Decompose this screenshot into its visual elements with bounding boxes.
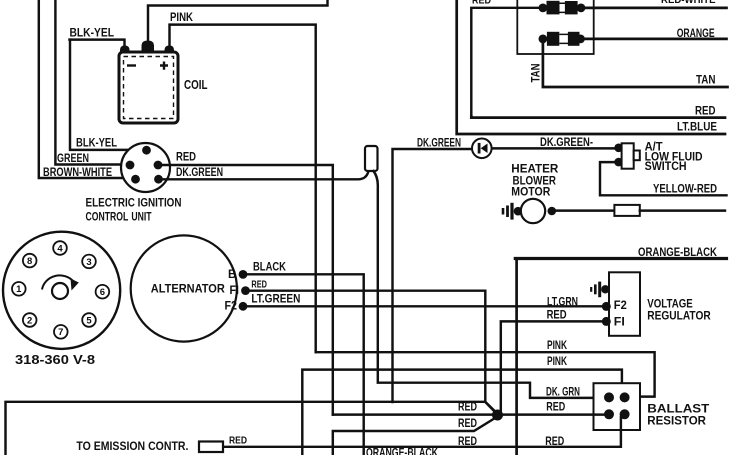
fuse F2 bbox=[539, 32, 585, 46]
wire from fusible link right bbox=[640, 209, 725, 211]
distributor cap circle 318-360 V-8 bbox=[3, 232, 120, 349]
svg-text:1: 1 bbox=[16, 284, 22, 295]
svg-text:SWITCH: SWITCH bbox=[645, 161, 687, 173]
svg-text:LT.BLUE: LT.BLUE bbox=[677, 122, 717, 134]
coil center tower bbox=[142, 41, 155, 54]
coil dashed inner border bbox=[124, 57, 174, 119]
alternator pin dots bbox=[239, 270, 248, 279]
svg-text:COIL: COIL bbox=[184, 77, 208, 92]
svg-text:FI: FI bbox=[230, 285, 240, 297]
svg-text:5: 5 bbox=[86, 315, 92, 326]
wire BROWN-WHITE from top edge to ECU bbox=[39, 0, 134, 178]
svg-text:RED: RED bbox=[176, 152, 196, 164]
svg-text:ELECTRIC IGNITION: ELECTRIC IGNITION bbox=[86, 198, 182, 210]
svg-text:MOTOR: MOTOR bbox=[511, 186, 551, 198]
svg-text:TO EMISSION CONTR.: TO EMISSION CONTR. bbox=[76, 441, 188, 453]
coil left terminal bbox=[120, 46, 130, 54]
svg-text:RED: RED bbox=[546, 402, 565, 414]
wire YELLOW-RED bbox=[600, 162, 727, 195]
fuse block box bbox=[517, 0, 593, 54]
wire PINK from coil + terminal down right side to PINK1 corner bbox=[170, 25, 316, 353]
svg-text:4: 4 bbox=[57, 243, 63, 254]
svg-text:7: 7 bbox=[58, 327, 63, 338]
coil plus mark bbox=[160, 62, 168, 70]
distributor rotation arrow bbox=[42, 275, 74, 289]
svg-text:PINK: PINK bbox=[170, 12, 194, 24]
wire GREEN from top edge to ECU bbox=[55, 0, 129, 165]
fusible link F3 bbox=[614, 205, 639, 216]
ground at heater motor bbox=[503, 203, 512, 220]
wire from motor to fusible link bbox=[554, 209, 614, 211]
svg-text:DK.GREEN: DK.GREEN bbox=[176, 167, 223, 179]
svg-text:RED: RED bbox=[695, 106, 716, 118]
op-amp: electric ignition control unit circle U1 bbox=[121, 143, 170, 192]
svg-text:BLK-YEL: BLK-YEL bbox=[70, 28, 115, 40]
svg-text:F2: F2 bbox=[225, 301, 238, 313]
svg-text:DK.GREEN-: DK.GREEN- bbox=[540, 137, 593, 149]
wire PINK1 from coil-pink vertical to ballast top-right bbox=[316, 352, 655, 396]
svg-text:LT.GRN: LT.GRN bbox=[547, 296, 578, 308]
wire BLK-YEL branch down to ECU top pin bbox=[70, 40, 146, 150]
svg-text:RED: RED bbox=[458, 436, 477, 448]
ballast resistor box bbox=[594, 383, 641, 430]
svg-text:DK. GRN: DK. GRN bbox=[546, 386, 580, 398]
svg-text:TAN: TAN bbox=[696, 75, 716, 87]
ECU pin dots bbox=[142, 146, 151, 155]
svg-text:F2: F2 bbox=[614, 300, 627, 312]
svg-text:8: 8 bbox=[27, 256, 32, 267]
wire LT.BLUE bbox=[457, 0, 725, 134]
connector CN1 (DK.GREEN) bbox=[365, 146, 378, 171]
svg-text:RED: RED bbox=[251, 280, 267, 291]
svg-text:DK.GREEN: DK.GREEN bbox=[417, 137, 461, 149]
wire ORANGE bbox=[585, 38, 727, 41]
svg-text:RED: RED bbox=[229, 435, 247, 446]
coil right terminal bbox=[165, 46, 175, 54]
svg-text:6: 6 bbox=[100, 287, 105, 298]
svg-text:TAN: TAN bbox=[531, 64, 543, 83]
voltage regulator box bbox=[609, 272, 640, 336]
wire RED-WHITE bbox=[584, 7, 727, 10]
svg-text:B: B bbox=[228, 269, 236, 281]
svg-text:BALLAST: BALLAST bbox=[647, 404, 709, 416]
svg-text:RESISTOR: RESISTOR bbox=[647, 416, 706, 428]
svg-text:2: 2 bbox=[27, 315, 32, 326]
wire from connector down to DK.GRN run bbox=[374, 171, 607, 398]
wire BLACK from alternator B down to bottom edge bbox=[243, 274, 364, 455]
svg-text:PINK: PINK bbox=[547, 356, 567, 368]
coil minus mark bbox=[127, 64, 136, 66]
ground at regulator bbox=[591, 282, 600, 298]
wire BLK-YEL to coil negative terminal bbox=[70, 40, 125, 52]
heater blower motor M1 bbox=[514, 207, 523, 216]
svg-text:PINK: PINK bbox=[547, 340, 567, 352]
svg-text:VOLTAGE: VOLTAGE bbox=[647, 299, 693, 311]
wire RED to regulator F1 from junction bbox=[501, 321, 604, 414]
svg-text:ORANGE-BLACK: ORANGE-BLACK bbox=[366, 448, 439, 455]
svg-text:RED: RED bbox=[547, 310, 567, 322]
svg-text:BLACK: BLACK bbox=[253, 261, 287, 273]
wire ORANGE-BLACK bbox=[515, 259, 518, 455]
wire RED right side bbox=[471, 117, 725, 118]
coil C1 body bbox=[119, 52, 178, 123]
svg-text:BLK-YEL: BLK-YEL bbox=[76, 138, 117, 150]
distributor plug towers 1-8 bbox=[12, 241, 109, 338]
svg-text:RED: RED bbox=[458, 418, 477, 430]
check valve circle bbox=[472, 139, 492, 159]
A/T low fluid switch bbox=[614, 144, 623, 153]
wire RED lower left to junction bbox=[333, 417, 498, 455]
svg-text:ORANGE-BLACK: ORANGE-BLACK bbox=[638, 247, 718, 259]
wire RED from alternator F1 down to junction bbox=[246, 291, 498, 415]
wire RED junction horizontal to ballast bbox=[333, 413, 604, 415]
svg-text:ORANGE: ORANGE bbox=[677, 28, 715, 40]
wire TAN from fuse F2 down and right bbox=[543, 41, 728, 87]
svg-text:LT.GREEN: LT.GREEN bbox=[251, 293, 300, 305]
svg-text:ALTERNATOR: ALTERNATOR bbox=[151, 284, 226, 296]
svg-text:RED-WHITE: RED-WHITE bbox=[661, 0, 716, 6]
svg-text:RED: RED bbox=[472, 0, 491, 7]
wire RED bottom to ballast bottom-right bbox=[223, 417, 621, 447]
junction node bbox=[492, 410, 503, 421]
svg-text:RED: RED bbox=[545, 436, 564, 448]
wire RED from ECU down to junction line bbox=[157, 165, 333, 415]
wire PINK2 from bottom edge to ballast top-right bbox=[302, 370, 622, 455]
svg-text:318-360 V-8: 318-360 V-8 bbox=[15, 352, 95, 367]
wire LT.GREEN from alternator F2 to regulator F2 bbox=[243, 305, 604, 307]
svg-text:FI: FI bbox=[614, 316, 625, 328]
svg-text:YELLOW-RED: YELLOW-RED bbox=[653, 184, 717, 196]
wire DK.GREEN horizontal with check valve bbox=[393, 149, 472, 402]
wire from coil tower up and off top edge bbox=[148, 0, 328, 45]
wire DK.GREEN from ECU curving up to connector bbox=[157, 171, 369, 179]
wire RED into fuse F1 bbox=[471, 8, 540, 118]
wire RED long from left corner to junction bbox=[6, 402, 498, 455]
distributor rotor center circle bbox=[52, 283, 68, 299]
svg-text:3: 3 bbox=[86, 257, 91, 268]
svg-text:GREEN: GREEN bbox=[57, 153, 89, 165]
svg-text:CONTROL UNIT: CONTROL UNIT bbox=[86, 212, 152, 224]
svg-text:REGULATOR: REGULATOR bbox=[647, 311, 711, 323]
svg-text:HEATER: HEATER bbox=[511, 163, 559, 175]
emission connector R2 bbox=[199, 442, 223, 453]
alternator circle bbox=[131, 235, 237, 341]
svg-text:RED: RED bbox=[458, 402, 477, 414]
svg-text:BROWN-WHITE: BROWN-WHITE bbox=[43, 167, 112, 179]
fuse F1 bbox=[539, 1, 586, 15]
